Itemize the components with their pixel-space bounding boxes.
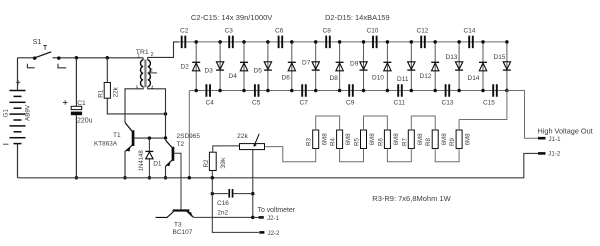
svg-text:D9: D9 [350,61,359,68]
wire top rail battery to S1 [18,57,35,59]
transistor T1 emitter arrow [126,147,131,152]
junction D7 bottom [314,89,318,93]
diode D7 [312,42,320,91]
diode D15 [503,42,511,91]
wire R1 top lead [106,58,108,83]
svg-text:T3: T3 [174,222,182,229]
transistor T2 bar [172,147,175,161]
diode D4 [240,42,248,91]
wire T1 emitter to ground rail [124,151,126,178]
junction R2 ground [211,176,215,180]
junction D14 top [481,40,485,44]
junction C1 top at rail [75,56,79,60]
wire T1 base to D1 and T2 collector node [134,137,165,139]
wire C1 bottom lead to ground rail [75,115,77,178]
junction D2 top [194,40,198,44]
transistor T3 base bar [173,209,190,211]
junction D3 top [218,40,222,44]
svg-text:C10: C10 [367,28,379,35]
transistor T1 emitter lead [125,145,132,151]
svg-text:1N4148: 1N4148 [139,150,145,172]
capacitor C6 [278,36,284,49]
svg-text:6M8: 6M8 [321,133,328,146]
junction D12 top [433,40,437,44]
resistor R5 [361,130,367,149]
svg-text:D3: D3 [205,68,214,75]
wire battery - lead to ground rail [17,144,19,178]
transformer TR1 secondary winding [148,60,151,86]
svg-text:1: 1 [137,53,140,59]
svg-text:J1-1: J1-1 [549,136,562,143]
diode D10 [383,42,391,91]
junction D1 ground [148,176,152,180]
battery + mark [16,80,21,84]
svg-text:J2-2: J2-2 [268,230,281,237]
wire TR1 pin2 up to multiplier input [148,42,179,60]
transformer TR1 core [145,60,146,88]
terminal J2-1 [259,216,264,219]
svg-text:D6: D6 [282,75,291,82]
wire R1 bottom to T2 collector node [107,98,165,114]
svg-text:220u: 220u [77,117,93,124]
diode D14 [479,42,487,91]
svg-text:R2: R2 [203,159,210,168]
transistor T3 collector lead [156,212,174,218]
junction D2 bottom [194,89,198,93]
junction D5 top [266,40,270,44]
capacitor C11 [397,84,403,97]
wire multiplier bottom rail [189,90,507,92]
diode D12 [431,42,439,91]
svg-text:2n2: 2n2 [217,209,228,216]
transformer TR1 primary winding [141,60,144,86]
svg-text:D7: D7 [302,60,311,67]
svg-text:High Voltage Out: High Voltage Out [538,126,593,135]
capacitor C13 [445,84,451,97]
terminal J1-2 [538,152,546,155]
svg-text:To voltmeter: To voltmeter [258,207,296,214]
svg-text:C16: C16 [217,200,229,207]
svg-text:2SD965: 2SD965 [177,133,201,140]
junction D1 top [148,136,152,140]
wire pot wiper down to C16 and J2-1 [252,150,254,217]
junction D6 top [290,40,294,44]
svg-text:C6: C6 [275,28,284,35]
junction T2 emitter ground [164,176,168,180]
svg-text:D11: D11 [397,76,409,83]
potentiometer wiper arrow [254,134,259,146]
diode D11 [407,42,415,91]
svg-text:C14: C14 [464,28,476,35]
junction D10 top [386,40,390,44]
wire C16 right connect [233,193,252,195]
capacitor C3 [228,36,234,49]
svg-text:D13: D13 [446,54,458,61]
wire TR1 pin5 to T1 collector [125,87,143,123]
transistor T1 collector lead [125,123,132,132]
svg-text:C2: C2 [180,28,189,35]
junction multiplier return ground [188,176,192,180]
svg-text:C8: C8 [323,28,332,35]
wire top rail S1 to TR1 [53,57,144,59]
junction D8 bottom [338,89,342,93]
svg-text:R7: R7 [401,138,408,146]
wire ground rail [18,153,539,177]
wire TR1 pin4 down [148,87,166,139]
resistor R3 [313,130,319,149]
diode D1 [146,138,154,178]
diode D3 [216,42,224,91]
junction D9 bottom [362,89,366,93]
capacitor C1 [71,106,82,115]
wire TR1 pin1 connect [142,58,144,60]
svg-text:G1: G1 [3,109,10,118]
junction D5 bottom [266,89,270,93]
capacitor C10 [372,36,378,49]
wire R9 top to output sample [458,120,460,131]
svg-text:C7: C7 [300,100,309,107]
svg-text:C15: C15 [483,100,495,107]
svg-text:6M8: 6M8 [417,133,424,146]
capacitor C12 [420,36,426,49]
resistor R9 [456,130,462,149]
junction J2-1 node [251,216,255,220]
svg-text:D2-D15: 14xBA159: D2-D15: 14xBA159 [325,13,390,22]
wire multiplier return to ground [188,91,190,178]
svg-text:D15: D15 [494,54,506,61]
junction D3 bottom [218,89,222,93]
junction D15 bottom [505,89,509,93]
wire C1 top lead [75,58,77,107]
svg-text:D2: D2 [181,64,190,71]
resistor R1 [104,83,110,99]
junction D6 bottom [290,89,294,93]
diode D5 [264,42,272,91]
svg-text:R3: R3 [306,138,313,146]
junction D10 bottom [386,89,390,93]
svg-text:3: 3 [150,68,153,74]
wire bridge R8-R9 bottom [435,149,459,162]
connector bracket right [58,64,66,68]
svg-text:C13: C13 [442,100,454,107]
svg-text:R3-R9: 7x6,8Mohm 1W: R3-R9: 7x6,8Mohm 1W [372,194,451,203]
transistor T2 emitter arrow [166,162,170,166]
junction D13 top [457,40,461,44]
battery - mark [3,143,9,145]
wire multiplier top rail [179,41,507,43]
transistor T1 bar [132,130,135,146]
svg-text:D14: D14 [468,75,480,82]
junction D15 top [505,40,509,44]
svg-text:39k: 39k [220,157,227,169]
svg-text:6M8: 6M8 [369,133,376,146]
svg-text:R4: R4 [330,138,337,146]
junction D11 bottom [410,89,414,93]
svg-text:6M8: 6M8 [441,133,448,146]
svg-text:6M8: 6M8 [465,133,472,146]
node S1 right terminal [57,56,61,60]
terminal J1-1 [538,137,546,140]
junction D13 bottom [457,89,461,93]
wire R2 ground node down to J2-2 [212,178,258,233]
svg-text:22k: 22k [237,133,249,140]
TR1 tap pin 3 stub [148,72,157,74]
junction C1 ground [75,176,79,180]
svg-text:R1: R1 [98,89,105,98]
svg-text:T2: T2 [177,141,185,148]
diode D8 [336,42,344,91]
capacitor C8 [325,36,331,49]
svg-text:C1: C1 [77,100,86,107]
svg-text:S1: S1 [33,37,42,46]
wire J2-1 connect [253,216,259,218]
switch S1 blade [36,52,52,58]
svg-text:C12: C12 [417,28,429,35]
junction wiper C16 right [251,192,255,196]
svg-text:D1: D1 [153,161,162,168]
capacitor C5 [254,84,259,97]
battery G1 [10,91,26,144]
svg-text:J2-1: J2-1 [267,215,280,222]
wire bridge R7-R8 top [411,116,435,130]
junction D4 top [242,40,246,44]
svg-text:C4: C4 [206,100,215,107]
transistor T3 emitter lead [188,212,193,218]
svg-text:C5: C5 [252,100,261,107]
svg-text:J1-2: J1-2 [548,151,561,158]
svg-text:C9: C9 [346,100,355,107]
connector bracket left [27,64,34,68]
wire bridge R4-R5 bottom [340,149,364,162]
capacitor C9 [348,84,354,97]
svg-text:T1: T1 [113,132,121,139]
junction C16 left [211,192,215,196]
junction D7 top [314,40,318,44]
svg-text:D10: D10 [372,75,384,82]
wire T2 base to T3 [174,153,181,209]
capacitor C4 [205,84,211,97]
wire R2 top to potentiometer left [213,146,240,152]
switch S1 actuator [43,46,46,50]
svg-text:D8: D8 [330,75,339,82]
svg-text:D4: D4 [229,73,238,80]
wire output node to J1-1 [507,91,538,139]
svg-text:C2-C15: 14x 39n/1000V: C2-C15: 14x 39n/1000V [191,13,273,22]
wire T3 emitter to J2-1 node [194,216,253,218]
junction R1 wire and TR1 pin4 line [164,112,168,116]
terminal J2-2 [259,231,264,234]
transistor T3 emitter arrow [186,212,192,218]
svg-text:6M8: 6M8 [393,133,400,146]
svg-text:R8: R8 [425,138,432,146]
svg-text:6M8: 6M8 [345,133,352,146]
wire output sample to R9 top [459,91,507,120]
C1 polarity + [63,100,67,104]
resistor R2 [209,152,216,170]
wire C16 left connect [212,193,228,195]
junction R1 top at rail [106,56,110,60]
svg-text:KT863A: KT863A [94,140,118,147]
resistor R4 [337,130,343,149]
transistor T2 emitter lead [166,160,173,166]
diode D13 [455,42,463,91]
junction D9 top [362,40,366,44]
capacitor C7 [301,84,307,97]
junction T2 collector node [164,136,168,140]
resistor R7 [408,130,414,149]
svg-text:C3: C3 [225,28,234,35]
junction D8 top [338,40,342,44]
svg-text:D12: D12 [420,73,432,80]
svg-text:D5: D5 [254,68,263,75]
wire bridge R3-R4 top [316,116,340,130]
svg-text:R9: R9 [449,138,456,146]
resistor R6 [384,130,390,149]
svg-text:R5: R5 [354,138,361,146]
wire T2 emitter to ground rail [165,166,167,177]
capacitor C16 [228,189,233,198]
wire battery + lead to top rail [17,58,19,91]
capacitor C15 [492,84,498,97]
wire bridge R6-R7 bottom [387,149,411,162]
wire bridge R5-R6 top [364,116,388,130]
junction T1 emitter ground [123,176,127,180]
node S1 left terminal [33,56,37,60]
svg-text:C11: C11 [394,100,406,107]
capacitor C14 [468,36,474,49]
svg-text:BC107: BC107 [173,229,193,236]
wire R2 bottom to ground [211,170,213,178]
junction D4 bottom [242,89,246,93]
svg-text:R6: R6 [377,138,384,146]
junction D11 top [410,40,414,44]
junction D14 bottom [481,89,485,93]
resistor R8 [432,130,438,149]
junction D12 bottom [433,89,437,93]
potentiometer 22k body [240,144,265,150]
wire R3 bottom to potentiometer [265,147,316,162]
transistor T2 collector lead [166,140,173,147]
diode D6 [288,42,296,91]
svg-text:AB9V: AB9V [24,104,31,121]
svg-text:22k: 22k [113,86,120,97]
capacitor C2 [181,36,187,49]
diode D2 [192,42,200,91]
diode D9 [360,42,368,91]
